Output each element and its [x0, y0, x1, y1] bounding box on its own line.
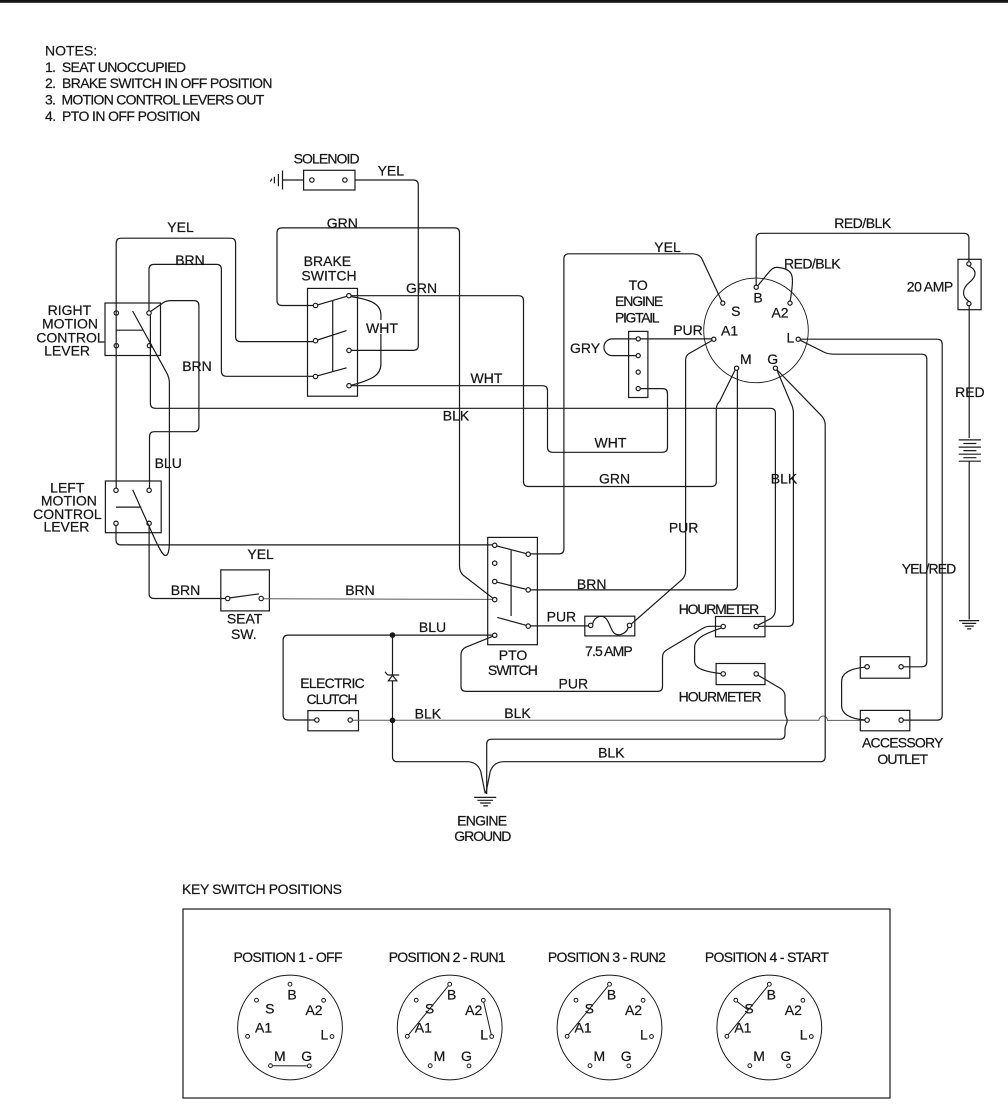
svg-text:YEL/RED: YEL/RED	[902, 561, 957, 577]
svg-text:BLK: BLK	[443, 408, 470, 424]
svg-text:G: G	[461, 1048, 472, 1064]
left lever contact BR	[147, 521, 151, 525]
position 1 terminal M	[269, 1064, 273, 1068]
diode D1 symbol	[385, 672, 399, 675]
PTO arm 2	[497, 582, 526, 589]
svg-text:RED/BLK: RED/BLK	[834, 215, 892, 231]
key switch terminal M	[735, 366, 739, 370]
svg-text:PIGTAIL: PIGTAIL	[615, 310, 660, 326]
svg-text:L: L	[787, 329, 795, 345]
brake switch right contact 2	[347, 348, 351, 352]
PTO right contact 3	[526, 624, 530, 628]
svg-text:A2: A2	[305, 1002, 322, 1018]
svg-text:A1: A1	[721, 322, 738, 338]
key switch terminal A1	[712, 337, 716, 341]
svg-text:BRAKE: BRAKE	[304, 253, 351, 269]
svg-text:BLK: BLK	[771, 471, 798, 487]
svg-text:LEVER: LEVER	[44, 343, 90, 359]
left lever inner bar	[116, 506, 141, 508]
position 4 terminal A2	[801, 998, 805, 1002]
key switch terminal B	[754, 285, 758, 289]
position 1 terminal S	[255, 998, 259, 1002]
accessory outlet upper box	[860, 657, 910, 679]
svg-text:PUR: PUR	[669, 519, 699, 535]
PTO arm 1	[497, 546, 526, 554]
svg-text:A2: A2	[771, 305, 788, 321]
PTO left contact 3	[493, 579, 497, 583]
wire PUR PTO right contact 3 to 7.5A fuse	[530, 625, 588, 627]
right lever contact BR	[147, 344, 151, 348]
fuse 20A terminal top	[967, 262, 971, 266]
accessory outlet lower box	[860, 710, 910, 730]
svg-text:M: M	[434, 1048, 446, 1064]
battery BT1 plates	[959, 440, 981, 461]
wire YEL/RED key switch L to accessory outlet upper	[800, 340, 927, 667]
svg-text:WHT: WHT	[595, 435, 627, 451]
svg-text:M: M	[274, 1048, 286, 1064]
position 1 contact link M-G	[273, 1065, 307, 1067]
brake switch arm 3	[318, 368, 347, 376]
svg-text:ELECTRIC: ELECTRIC	[300, 675, 365, 691]
brake switch arm 2	[318, 331, 347, 340]
wire YEL left lever / right lever TL to brake mid-left contact	[116, 238, 313, 488]
fuse 7.5 AMP box	[585, 616, 635, 636]
svg-text:BLU: BLU	[155, 455, 182, 471]
svg-text:WHT: WHT	[471, 370, 503, 386]
wire BLK hourmeter 2 to engine ground	[487, 675, 788, 794]
svg-text:BRN: BRN	[577, 576, 607, 592]
wire BLK key switch G to hourmeter 1 right	[759, 370, 794, 626]
position 2 terminal A2	[481, 998, 485, 1002]
svg-text:4. PTO IN OFF POSITION: 4. PTO IN OFF POSITION	[45, 108, 200, 124]
svg-text:1. SEAT UNOCCUPIED: 1. SEAT UNOCCUPIED	[45, 59, 186, 75]
accessory lower contact R	[899, 718, 903, 722]
fuse 20 AMP box	[958, 259, 981, 309]
brake switch box	[308, 288, 358, 396]
svg-text:G: G	[301, 1048, 312, 1064]
svg-text:GRN: GRN	[599, 471, 630, 487]
svg-text:S: S	[265, 1000, 274, 1016]
svg-text:ACCESSORY: ACCESSORY	[862, 734, 944, 750]
position 1 terminal A1	[246, 1034, 250, 1038]
wire BLU right lever TR to left lever TR	[150, 301, 199, 489]
wire BRN right lever TR up-over to brake bottom-left contact	[149, 264, 313, 376]
brake switch arm 1	[318, 296, 347, 305]
clutch contact L	[315, 718, 319, 722]
right lever contact TL	[114, 311, 118, 315]
svg-text:YEL: YEL	[167, 219, 194, 235]
right lever inner bar	[116, 329, 142, 331]
PTO linkage bar	[510, 551, 512, 617]
position 3 circle	[557, 975, 662, 1080]
svg-text:B: B	[767, 986, 776, 1002]
hourmeter 2 contact L	[721, 672, 725, 676]
left motion control lever box	[105, 481, 161, 533]
PTO left contact 1	[493, 543, 497, 547]
position 3 terminal L	[650, 1035, 654, 1039]
svg-text:TO: TO	[629, 277, 648, 293]
PTO left contact 2	[493, 561, 497, 565]
svg-text:SEAT: SEAT	[227, 610, 263, 626]
key switch terminal G	[773, 366, 777, 370]
wire BRN seat switch to PTO left contact 4	[263, 598, 492, 601]
right lever contact BL	[114, 344, 118, 348]
svg-text:S: S	[744, 1000, 753, 1016]
svg-text:GRY: GRY	[570, 340, 601, 356]
wire link hourmeter1-left to hourmeter2-left	[695, 628, 722, 674]
position 3 terminal S	[574, 998, 578, 1002]
svg-text:M: M	[740, 351, 752, 367]
hourmeter 1 box	[716, 617, 766, 637]
svg-text:M: M	[593, 1048, 605, 1064]
accessory upper contact L	[865, 665, 869, 669]
position 3 terminal B	[608, 982, 612, 986]
svg-text:SW.: SW.	[231, 626, 257, 642]
position 4 terminal M	[748, 1064, 752, 1068]
fuse 20A terminal bottom	[967, 302, 971, 306]
PTO right contact 2	[526, 588, 530, 592]
svg-text:A1: A1	[255, 1020, 272, 1036]
diode D1 wire	[392, 635, 394, 720]
left lever contact TR	[147, 488, 151, 492]
position 3 terminal G	[627, 1064, 631, 1068]
position 2 contact link A1-B	[409, 986, 449, 1035]
svg-text:RED: RED	[955, 384, 985, 400]
svg-text:BRN: BRN	[345, 582, 375, 598]
position 4 contact link S branch	[737, 1002, 748, 1010]
position 2 terminal G	[467, 1064, 471, 1068]
fuse 20A element	[964, 266, 976, 301]
svg-text:GROUND: GROUND	[454, 828, 511, 844]
brake switch left contact 1	[313, 303, 317, 307]
solenoid pin 1	[310, 178, 314, 182]
right motion control lever box	[105, 303, 161, 356]
position 2 terminal A1	[405, 1034, 409, 1038]
svg-text:M: M	[753, 1048, 765, 1064]
hourmeter 1 contact L	[721, 624, 725, 628]
wire WHT brake bottom-right to pigtail pin 4	[351, 386, 667, 453]
svg-text:PUR: PUR	[547, 609, 577, 625]
PTO left contact 4	[493, 597, 497, 601]
wire BLK junction to engine ground	[393, 720, 486, 793]
pigtail pin 3	[636, 370, 640, 374]
svg-text:POSITION 4 - START: POSITION 4 - START	[705, 949, 829, 965]
svg-text:2. BRAKE SWITCH IN OFF POSITI: 2. BRAKE SWITCH IN OFF POSITION	[45, 75, 273, 91]
svg-text:A1: A1	[575, 1020, 592, 1036]
position 2 contact link A2-L	[484, 1002, 491, 1034]
svg-text:SOLENOID: SOLENOID	[294, 150, 360, 166]
svg-text:A2: A2	[785, 1002, 802, 1018]
wire BRN key switch M to PTO right contact 2	[531, 370, 738, 590]
svg-text:S: S	[585, 1000, 594, 1016]
svg-text:PUR: PUR	[559, 675, 589, 691]
wire WHT brake internal top-right to bottom-right	[351, 297, 381, 386]
wire battery to ground	[968, 461, 970, 619]
svg-text:BLK: BLK	[415, 705, 442, 721]
brake switch left contact 3	[313, 374, 317, 378]
engine ground symbol	[474, 797, 496, 806]
position 1 terminal G	[307, 1064, 311, 1068]
svg-text:NOTES:: NOTES:	[45, 42, 97, 58]
wire YEL/RED key switch L to accessory outlet lower	[800, 339, 942, 720]
chassis ground at solenoid	[270, 171, 282, 190]
svg-text:ENGINE: ENGINE	[615, 293, 663, 309]
pigtail pin 2	[636, 354, 640, 358]
svg-text:S: S	[731, 303, 740, 319]
electric clutch box	[308, 711, 359, 731]
svg-text:SWITCH: SWITCH	[488, 662, 538, 678]
svg-text:KEY SWITCH POSITIONS: KEY SWITCH POSITIONS	[182, 881, 342, 897]
wire BLK right lever TR down to hourmeter right contact	[150, 315, 775, 625]
battery ground symbol	[959, 621, 979, 629]
pigtail pin 4	[636, 387, 640, 391]
svg-text:YEL: YEL	[247, 546, 274, 562]
svg-text:CLUTCH: CLUTCH	[307, 691, 358, 707]
wire YEL solenoid to brake switch mid-right contact	[351, 180, 418, 350]
accessory lower contact L	[865, 718, 869, 722]
wire BLK clutch to accessory outlet lower-left	[352, 716, 865, 720]
svg-text:L: L	[640, 1026, 648, 1042]
svg-text:POSITION 3 - RUN2: POSITION 3 - RUN2	[548, 949, 666, 965]
wire solenoid ground stub	[283, 179, 304, 181]
wire YEL key switch S to PTO right contact 1	[531, 254, 722, 554]
junction BLK diode bottom	[390, 718, 396, 724]
key switch terminal A2	[788, 301, 792, 305]
svg-text:BLU: BLU	[419, 619, 446, 635]
PTO right contact 1	[526, 552, 530, 556]
position 2 terminal S	[414, 998, 418, 1002]
svg-text:PUR: PUR	[673, 322, 703, 338]
label WHT background patch	[365, 320, 399, 334]
PTO left contact 5	[493, 633, 497, 637]
svg-text:L: L	[800, 1026, 808, 1042]
key switch terminal S	[721, 301, 725, 305]
key switch circle U1	[704, 278, 809, 383]
position 2 terminal B	[448, 982, 452, 986]
left lever contact TL	[114, 488, 118, 492]
clutch contact R	[348, 718, 352, 722]
svg-text:L: L	[321, 1026, 329, 1042]
hourmeter 2 box	[716, 664, 765, 685]
svg-text:A2: A2	[465, 1002, 482, 1018]
svg-text:BRN: BRN	[182, 358, 212, 374]
svg-text:POSITION 1 - OFF: POSITION 1 - OFF	[234, 949, 343, 965]
position 1 terminal A2	[322, 998, 326, 1002]
wire GRY pigtail loop pin1-pin2	[604, 339, 636, 356]
svg-text:HOURMETER: HOURMETER	[679, 689, 762, 705]
position 3 contact link A1-B	[569, 986, 609, 1035]
wire YEL left lever BL to PTO left contact 1	[116, 526, 493, 545]
position 1 terminal B	[288, 982, 292, 986]
seat switch contact R	[259, 596, 263, 600]
position 3 terminal A2	[641, 998, 645, 1002]
right lever contact TR	[147, 311, 151, 315]
seat switch box	[221, 570, 270, 611]
svg-text:B: B	[447, 986, 456, 1002]
position 3 terminal M	[588, 1064, 592, 1068]
wire BRN left lever BR to seat switch	[149, 526, 225, 599]
svg-text:A1: A1	[734, 1020, 751, 1036]
svg-text:7.5 AMP: 7.5 AMP	[585, 643, 633, 659]
position 3 terminal A1	[565, 1034, 569, 1038]
wire BLU clutch loop to PTO left contact 5	[283, 635, 492, 720]
position 4 terminal B	[767, 982, 771, 986]
svg-text:GRN: GRN	[406, 280, 437, 296]
svg-text:A1: A1	[415, 1020, 432, 1036]
svg-text:G: G	[781, 1048, 792, 1064]
seat switch arm	[230, 594, 259, 598]
svg-text:POSITION 2 - RUN1: POSITION 2 - RUN1	[389, 949, 506, 965]
brake switch right contact 1	[347, 294, 351, 298]
svg-text:LEVER: LEVER	[43, 519, 89, 535]
fuse 7.5A element	[592, 616, 628, 634]
svg-text:BLK: BLK	[598, 745, 625, 761]
position 4 circle	[717, 975, 822, 1080]
svg-text:RED/BLK: RED/BLK	[784, 256, 841, 272]
wire PUR pigtail pin1 to key switch A1	[640, 338, 711, 340]
svg-text:B: B	[753, 289, 762, 305]
wire RED/BLK key switch B to 20A fuse	[756, 233, 969, 285]
position 2 terminal M	[428, 1064, 432, 1068]
svg-text:B: B	[287, 986, 296, 1002]
svg-text:G: G	[621, 1048, 632, 1064]
svg-text:HOURMETER: HOURMETER	[679, 601, 760, 617]
hourmeter 1 contact R	[754, 624, 758, 628]
wire PUR PTO left contact 5 to hourmeter 1 left	[461, 626, 721, 691]
lever linkage arm right-to-left	[133, 311, 170, 555]
junction BLU diode top	[390, 632, 396, 638]
svg-text:OUTLET: OUTLET	[877, 751, 928, 767]
solenoid pin 2	[343, 178, 347, 182]
wire GRN brake top-right contact to key switch M	[351, 296, 735, 487]
svg-text:WHT: WHT	[366, 320, 398, 336]
hourmeter 2 contact R	[754, 672, 758, 676]
brake switch right contact 3	[347, 384, 351, 388]
PTO switch box	[488, 537, 538, 644]
PTO arm 3	[497, 617, 526, 625]
wire RED/BLK jumper B to A2	[758, 267, 793, 301]
position 4 terminal G	[787, 1064, 791, 1068]
wire BLK key switch G to engine ground	[486, 370, 825, 794]
svg-text:BRN: BRN	[171, 582, 201, 598]
solenoid box	[304, 170, 355, 190]
svg-text:PTO: PTO	[499, 647, 528, 663]
svg-text:S: S	[425, 1000, 434, 1016]
position 1 circle	[238, 975, 343, 1080]
page top border bar	[0, 0, 1008, 3]
svg-text:20 AMP: 20 AMP	[907, 278, 954, 294]
wire RED 20A fuse to battery	[968, 306, 970, 438]
position 1 terminal L	[330, 1035, 334, 1039]
engine pigtail connector box	[629, 331, 648, 397]
svg-text:YEL: YEL	[654, 239, 681, 255]
svg-text:B: B	[607, 986, 616, 1002]
position 4 terminal A1	[725, 1034, 729, 1038]
wire GRN brake top-left contact to PTO left contact 4	[277, 228, 493, 598]
wire PUR key switch A1 to 7.5A fuse	[631, 341, 712, 625]
position 4 terminal S	[734, 998, 738, 1002]
position 2 circle	[397, 975, 502, 1080]
svg-text:BRN: BRN	[175, 252, 205, 268]
brake switch left contact 2	[313, 339, 317, 343]
accessory upper contact R	[899, 665, 903, 669]
key switch terminal L	[796, 337, 800, 341]
pigtail pin 1	[636, 337, 640, 341]
brake switch linkage bar	[332, 301, 334, 372]
svg-text:GRN: GRN	[327, 215, 358, 231]
fuse 7.5A terminal R	[627, 623, 631, 627]
position 2 terminal L	[490, 1035, 494, 1039]
svg-text:ENGINE: ENGINE	[457, 812, 507, 828]
position 4 terminal L	[809, 1035, 813, 1039]
svg-text:A2: A2	[625, 1002, 642, 1018]
svg-text:G: G	[767, 351, 778, 367]
left lever contact BL	[114, 521, 118, 525]
key switch positions box	[183, 909, 890, 1098]
wire accessory link upper-left to lower-left	[842, 667, 865, 720]
svg-text:L: L	[480, 1026, 488, 1042]
position 4 contact link A1-B	[728, 986, 768, 1035]
svg-text:YEL: YEL	[378, 162, 405, 178]
fuse 7.5A terminal L	[589, 623, 593, 627]
seat switch contact L	[226, 596, 230, 600]
svg-text:3. MOTION CONTROL LEVERS OUT: 3. MOTION CONTROL LEVERS OUT	[45, 91, 265, 107]
svg-text:SWITCH: SWITCH	[301, 268, 356, 284]
svg-text:BLK: BLK	[504, 705, 531, 721]
